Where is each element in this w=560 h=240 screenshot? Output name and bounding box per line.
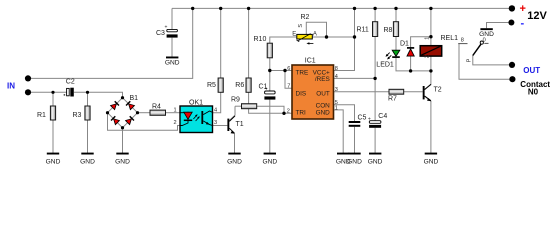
svg-text:-: - [521, 17, 525, 29]
wire R3 drop [87, 92, 89, 106]
svg-text:REL1: REL1 [441, 35, 459, 42]
svg-text:GND: GND [347, 158, 362, 165]
wire IC pin1 GND [334, 110, 344, 153]
wire C3 to ground [171, 38, 173, 57]
node R10-C1-pin6 [268, 69, 271, 72]
wire R3 to ground [87, 120, 89, 153]
capacitor C3 [156, 25, 178, 38]
wire R1 drop [52, 92, 54, 106]
wire OK1 pin3 to T1 base [213, 125, 228, 127]
wire R10 to pin6 node [269, 58, 271, 71]
node pin4-R11-C4 [373, 77, 376, 80]
resistor R10 [254, 36, 273, 58]
wire pot right to VCC drop [312, 36, 354, 38]
svg-text:R4: R4 [152, 104, 161, 111]
ground R1 [46, 153, 61, 166]
svg-text:DIS: DIS [296, 91, 307, 98]
wire B1 left node to OK1 pin2 [108, 113, 181, 131]
resistor R6 [235, 78, 251, 92]
svg-text:2: 2 [174, 120, 177, 126]
svg-text:2: 2 [424, 55, 430, 58]
svg-text:LED1: LED1 [376, 61, 394, 68]
wire pin4 node to C4 [374, 78, 376, 120]
svg-text:N0: N0 [528, 88, 539, 97]
node relay pin2-T2 [429, 69, 432, 72]
svg-text:GND: GND [165, 60, 180, 67]
capacitor C5 [349, 115, 367, 127]
svg-text:6: 6 [287, 66, 290, 72]
wire IC pin7 DIS jumper [285, 71, 292, 89]
wire R8 to LED1 [395, 37, 397, 51]
LED LED1 [376, 50, 400, 68]
wire diamond edges [108, 98, 138, 128]
svg-text:T1: T1 [236, 121, 244, 128]
wire C2 to B1 top [74, 92, 123, 97]
node D1-relay net [409, 69, 412, 72]
ground IC pin1 [336, 153, 351, 166]
svg-text:R9: R9 [231, 97, 240, 104]
wire R9 right to TRI net [257, 106, 284, 113]
wire R4 to OK1 pin1 [166, 112, 181, 114]
svg-text:C5: C5 [358, 115, 367, 122]
bridge rectifier B1 [106, 95, 139, 130]
wire contact 8 to NO terminal [459, 44, 509, 80]
ground T1 [227, 153, 242, 166]
wire R11 to pin4 node [374, 37, 376, 79]
svg-text:OUT: OUT [523, 66, 540, 75]
svg-text:7: 7 [287, 84, 290, 90]
svg-text:C3: C3 [156, 30, 165, 37]
terminal Contact NO [509, 76, 515, 82]
wire R5 from rail [220, 8, 222, 78]
svg-text:GND: GND [227, 158, 242, 165]
svg-text:D1: D1 [400, 41, 409, 48]
wire LED1 cathode to relay net [396, 58, 431, 71]
capacitor C1 [259, 83, 276, 99]
optocoupler OK1 [174, 99, 218, 132]
resistor R5 [207, 78, 223, 92]
wire R11 from rail [374, 8, 376, 21]
node rail-R5 junction [219, 7, 222, 10]
svg-text:C2: C2 [66, 78, 75, 85]
svg-text:R6: R6 [235, 82, 244, 89]
LED inside OK1 [180, 112, 188, 114]
wire T1 emitter to ground [234, 134, 236, 153]
terminal IN lower [25, 89, 31, 95]
svg-text:1: 1 [424, 37, 430, 40]
svg-text:2: 2 [287, 109, 290, 115]
svg-text:GND: GND [368, 158, 383, 165]
node D1 cathode-relay pin1 [429, 35, 432, 38]
svg-text:1: 1 [335, 106, 338, 112]
wire D1 cathode to relay top [411, 37, 431, 48]
wire IN upper to rail [31, 8, 193, 78]
relay contact switch [458, 38, 488, 63]
node B1 bottom [121, 126, 124, 129]
node TRI-R9 junction [282, 112, 285, 115]
wire R1 to ground [52, 120, 54, 153]
wire relay coil pin1 from rail [430, 8, 432, 45]
contact 8 bar [458, 43, 467, 45]
node R3 tap [86, 91, 89, 94]
phototransistor inside OK1 [201, 111, 203, 124]
wire top +12V rail [172, 7, 510, 9]
svg-text:OUT: OUT [316, 91, 330, 98]
wire IC pin8 VCC to rail [334, 8, 355, 70]
svg-text:TRE: TRE [296, 69, 309, 76]
wire R7 to T2 base [404, 91, 423, 93]
svg-text:T2: T2 [434, 87, 442, 94]
svg-text:IC1: IC1 [305, 58, 316, 65]
wire R6 from rail [248, 8, 250, 78]
svg-text:S: S [298, 24, 304, 28]
svg-text:4: 4 [214, 107, 217, 113]
wire C4 to ground [374, 128, 376, 153]
wire B1 right to R4 [138, 112, 151, 114]
node pot-VCC tee [353, 35, 356, 38]
wire minus terminal to ground [487, 23, 509, 29]
svg-text:A: A [313, 31, 317, 37]
resistor R11 [357, 22, 378, 37]
diode B1 bottom-left [111, 116, 119, 124]
diode B1 bottom-right [125, 116, 133, 124]
svg-text:GND: GND [479, 31, 494, 38]
transistor T1 [227, 116, 243, 134]
svg-text:GND: GND [46, 158, 61, 165]
svg-text:3: 3 [214, 120, 217, 126]
wire pot line to R10 [270, 37, 297, 43]
capacitor C2 [64, 78, 75, 96]
wire T2 collector [425, 71, 431, 89]
svg-text:1: 1 [174, 107, 177, 113]
wire R9 left lead [235, 105, 242, 107]
svg-text:8: 8 [335, 66, 338, 72]
diode D1 [400, 41, 414, 57]
wire C1 top [269, 71, 271, 91]
svg-text:GND: GND [316, 109, 331, 116]
node pin6-pin7 tee [283, 69, 286, 72]
svg-text:R2: R2 [301, 14, 310, 21]
wire IC pin5 CON to C5 [334, 105, 355, 121]
wire T2 emitter to ground [425, 96, 431, 153]
diode B1 top-right [126, 101, 134, 109]
terminal IN upper [25, 75, 31, 81]
wire IC pin6 TRE [270, 70, 292, 72]
transistor T2 [423, 84, 442, 101]
contact arm [473, 44, 481, 56]
node rail-VCC junction [353, 7, 356, 10]
ground B1 [115, 153, 130, 166]
ground C1 [262, 153, 277, 166]
svg-text:R10: R10 [254, 36, 267, 43]
relay REL1 [420, 35, 458, 58]
svg-text:R11: R11 [357, 26, 369, 33]
svg-text:E: E [292, 31, 296, 37]
ground minus terminal [479, 28, 494, 38]
resistor R4 [150, 104, 166, 116]
ground C4 [368, 153, 383, 166]
capacitor C4 [368, 113, 387, 128]
terminal +12V plus [509, 5, 515, 11]
potentiometer R2 [292, 14, 317, 45]
IC U1 555 timer IC1 [287, 58, 338, 119]
node B1 right [136, 111, 139, 114]
svg-text:IN: IN [7, 82, 15, 91]
node rail-IN junction [191, 7, 194, 10]
svg-text:TRI: TRI [296, 109, 307, 116]
svg-text:3: 3 [335, 87, 338, 93]
svg-text:+: + [520, 3, 526, 15]
wire C1 to ground [269, 100, 271, 153]
svg-text:GND: GND [424, 158, 439, 165]
resistor R1 [37, 106, 56, 120]
svg-text:GND: GND [80, 158, 95, 165]
resistor R8 [384, 22, 399, 37]
svg-text:R3: R3 [73, 112, 82, 119]
svg-text:R1: R1 [37, 112, 46, 119]
wire IC pin3 OUT to R7 [334, 91, 390, 93]
terminal OUT [509, 62, 515, 68]
wire R6 to IC pin2 (TRI) [249, 92, 292, 113]
node rail-R11 junction [373, 7, 376, 10]
svg-text:GND: GND [115, 158, 130, 165]
diode B1 top-left [110, 101, 118, 109]
node rail-R6 junction [247, 7, 250, 10]
wire R5 to OK1 pin4 [213, 92, 221, 112]
node B1 left [106, 111, 109, 114]
wire IC pin4 /RES to R11 [334, 77, 376, 79]
svg-text:R5: R5 [207, 82, 216, 89]
terminal minus [508, 20, 514, 26]
node R1 tap [51, 91, 54, 94]
svg-text:GND: GND [262, 158, 277, 165]
ground C3 [165, 57, 180, 67]
wire contact pole to OUT terminal [473, 55, 509, 65]
node rail-relay junction [429, 7, 432, 10]
wire C3 branch from rail [171, 8, 173, 29]
node pot wiper tap [325, 35, 328, 38]
node B1 top [121, 96, 124, 99]
wire IN lower to C2 [31, 91, 67, 93]
svg-text:12V: 12V [527, 10, 547, 22]
svg-text:B1: B1 [130, 95, 139, 102]
wire B1 bottom to ground [122, 128, 124, 153]
wire C5 to ground [354, 127, 356, 153]
svg-text:C4: C4 [378, 113, 387, 120]
wire D1 anode [410, 56, 412, 71]
wire R8 from rail [395, 8, 397, 21]
svg-text:4: 4 [335, 74, 338, 80]
contact tip circle [480, 41, 483, 44]
svg-text:/RES: /RES [315, 76, 330, 83]
resistor R7 [388, 89, 404, 102]
svg-text:R7: R7 [388, 95, 397, 102]
wire relay coil pin2 down [430, 56, 432, 71]
node rail-R8 junction [394, 7, 397, 10]
ground T2 [424, 153, 439, 166]
svg-text:8: 8 [461, 38, 464, 44]
svg-text:P: P [467, 58, 473, 62]
svg-text:R8: R8 [384, 27, 393, 34]
resistor R3 [73, 106, 91, 120]
resistor R9 [231, 97, 257, 109]
ground C5 [347, 153, 362, 166]
light arrows inside OK1 [193, 115, 196, 119]
wire T1 collector to R9 [229, 106, 235, 120]
contact 0 bar [484, 42, 488, 44]
ground R3 [80, 153, 95, 166]
wire pot wiper loop [306, 22, 326, 37]
